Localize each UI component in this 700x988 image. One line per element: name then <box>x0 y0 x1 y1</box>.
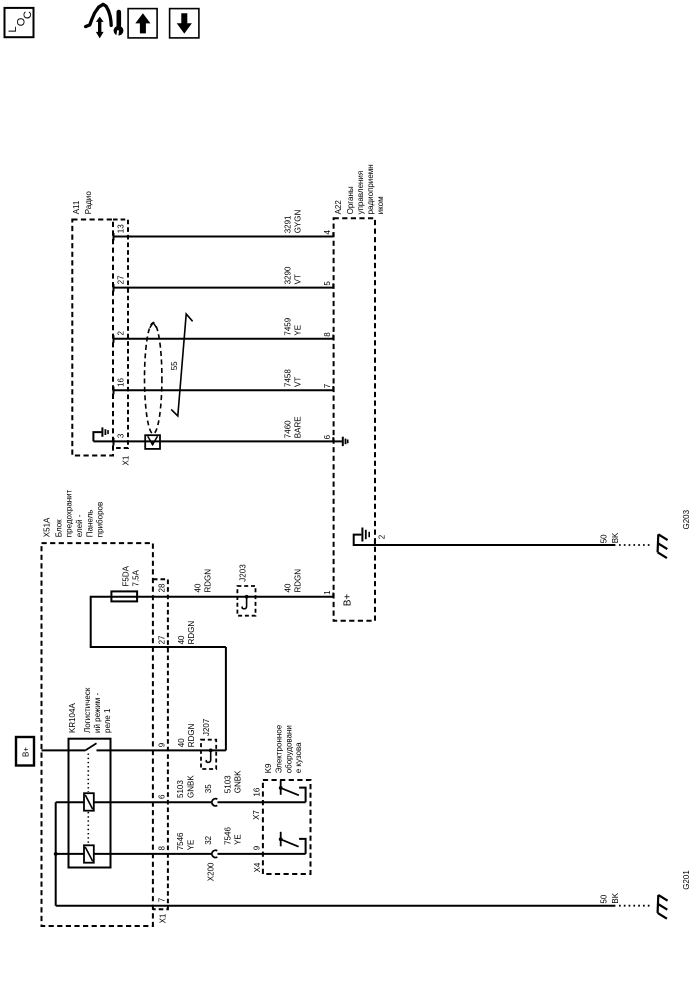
svg-text:9: 9 <box>158 742 167 747</box>
svg-text:RDGN: RDGN <box>293 569 302 593</box>
relay coil 1 <box>84 793 94 811</box>
svg-text:X4: X4 <box>253 862 262 872</box>
svg-text:K9: K9 <box>264 763 273 773</box>
svg-text:B+: B+ <box>21 747 30 757</box>
svg-text:оборудовани: оборудовани <box>285 725 294 773</box>
svg-text:RDGN: RDGN <box>187 621 196 645</box>
svg-text:55: 55 <box>170 361 179 370</box>
svg-text:40: 40 <box>177 738 186 747</box>
svg-text:7460: 7460 <box>283 420 292 438</box>
wire 7546 YE pin8 to X200 <box>56 832 212 854</box>
svg-text:приборов: приборов <box>95 502 104 537</box>
vehicle component-view icon with double arrow and wrench <box>86 4 124 38</box>
svg-text:J207: J207 <box>202 718 211 736</box>
svg-text:16: 16 <box>117 377 126 386</box>
svg-text:YE: YE <box>187 840 196 851</box>
relay coil 2 <box>84 845 94 862</box>
inline connector X200 on wire 7546 <box>204 835 217 881</box>
svg-text:радиоприемн: радиоприемн <box>366 164 375 214</box>
svg-text:2: 2 <box>378 534 387 539</box>
svg-text:е кузова: е кузова <box>294 742 303 773</box>
svg-text:KR104A: KR104A <box>68 703 77 733</box>
svg-text:5: 5 <box>323 281 332 286</box>
shield drain connection box on wire 7460 <box>145 435 160 449</box>
wire 50 BK pin7 to ground G201 <box>56 892 652 905</box>
svg-text:управления: управления <box>356 171 365 215</box>
splice J207 <box>201 718 216 769</box>
svg-text:BK: BK <box>611 532 620 543</box>
svg-text:C: C <box>22 11 34 19</box>
svg-text:иком: иком <box>376 196 385 214</box>
LOC navigation button <box>5 8 35 37</box>
svg-text:A22: A22 <box>334 200 343 215</box>
relay KR104A box <box>68 687 112 867</box>
svg-text:VT: VT <box>293 274 302 284</box>
ground G201 <box>658 870 692 919</box>
component A11 Radio dashed box <box>72 191 113 456</box>
svg-text:3: 3 <box>117 433 126 438</box>
svg-text:16: 16 <box>252 787 261 796</box>
wire from fuse to pin 27 branch <box>91 597 226 647</box>
svg-text:27: 27 <box>158 635 167 644</box>
svg-text:X200: X200 <box>207 862 216 881</box>
svg-text:7: 7 <box>158 897 167 902</box>
svg-text:елей -: елей - <box>75 514 84 537</box>
svg-text:3291: 3291 <box>283 215 292 233</box>
svg-text:GNBK: GNBK <box>233 770 242 793</box>
svg-text:J203: J203 <box>238 564 247 582</box>
svg-text:предохранит: предохранит <box>65 489 74 537</box>
svg-text:7458: 7458 <box>283 369 292 387</box>
component K9 body control module dashed box <box>263 724 311 874</box>
svg-text:X51A: X51A <box>43 517 52 537</box>
svg-text:L: L <box>7 26 19 32</box>
wire 5103 GNBK X200 to K9 pin16 <box>218 770 306 820</box>
svg-text:40: 40 <box>283 583 292 592</box>
svg-text:GNBK: GNBK <box>187 775 196 798</box>
svg-text:40: 40 <box>193 583 202 592</box>
svg-text:Блок: Блок <box>55 519 64 537</box>
wire 40 RDGN pin9 from relay switch to junction <box>97 647 226 750</box>
wire 40 RDGN pin28 to pin1 <box>137 569 333 597</box>
wire 7460 BARE shield drain pin3 to pin6 <box>93 416 333 445</box>
wire 5103 GNBK pin6 to X200 <box>56 775 212 803</box>
svg-text:G203: G203 <box>682 509 691 529</box>
svg-text:50: 50 <box>599 894 608 903</box>
svg-text:YE: YE <box>293 325 302 336</box>
svg-text:Электронное: Электронное <box>275 724 284 773</box>
svg-text:7546: 7546 <box>223 827 232 845</box>
svg-text:4: 4 <box>323 230 332 235</box>
cable annotation slash 55 <box>170 314 193 416</box>
svg-text:X7: X7 <box>252 810 261 820</box>
switch inside K9 at pin 9 <box>279 832 306 854</box>
svg-text:ий режим -: ий режим - <box>93 692 102 733</box>
wire 50 BK to ground G203 <box>375 532 652 545</box>
ground symbol inside A22 at pin 6 <box>333 437 347 446</box>
svg-text:8: 8 <box>323 332 332 337</box>
svg-text:7459: 7459 <box>283 317 292 335</box>
svg-text:A11: A11 <box>72 200 81 214</box>
svg-text:Логистическ: Логистическ <box>83 687 92 733</box>
wire 7458 VT pin16 to pin7 <box>114 369 334 395</box>
svg-text:YE: YE <box>233 834 242 845</box>
wire 7459 YE pin2 to pin8 <box>114 317 334 343</box>
B+ power feed box <box>16 737 34 766</box>
svg-text:Панель: Панель <box>85 510 94 538</box>
svg-text:RDGN: RDGN <box>203 569 212 593</box>
connector X1 of X51A <box>153 579 168 923</box>
relay switch contact <box>85 743 96 750</box>
svg-text:27: 27 <box>117 275 126 284</box>
svg-text:5103: 5103 <box>223 775 232 793</box>
wire 3290 VT pin27 to pin5 <box>114 266 334 292</box>
up-arrow button <box>128 9 157 38</box>
svg-text:G201: G201 <box>682 870 691 890</box>
svg-text:реле 1: реле 1 <box>103 708 112 733</box>
svg-text:7: 7 <box>323 383 332 388</box>
svg-text:X1: X1 <box>159 913 168 923</box>
svg-text:9: 9 <box>253 845 262 850</box>
svg-text:6: 6 <box>323 434 332 439</box>
ground G203 <box>658 509 692 558</box>
svg-text:28: 28 <box>158 583 167 592</box>
ground symbol inside A11 at pin 3 <box>93 427 108 441</box>
connector X1 of A11 <box>113 220 130 466</box>
svg-text:35: 35 <box>204 784 213 793</box>
pin 1 B+ of A22 <box>323 590 354 606</box>
svg-text:B+: B+ <box>342 594 353 607</box>
svg-text:3290: 3290 <box>283 266 292 284</box>
splice J203 <box>237 564 255 616</box>
svg-text:8: 8 <box>158 846 167 851</box>
svg-text:BARE: BARE <box>293 416 302 438</box>
svg-text:1: 1 <box>323 590 332 595</box>
svg-text:2: 2 <box>117 331 126 336</box>
component X51A fuse block dashed box <box>42 489 153 926</box>
wire 3291 GYGN pin13 to pin4 <box>114 210 334 241</box>
svg-text:6: 6 <box>158 794 167 799</box>
shield ellipse around wires <box>145 323 162 434</box>
svg-text:VT: VT <box>293 377 302 387</box>
svg-text:40: 40 <box>177 635 186 644</box>
svg-text:X1: X1 <box>121 455 130 465</box>
svg-text:BK: BK <box>611 892 620 903</box>
svg-text:32: 32 <box>204 835 213 844</box>
ground symbol inside A22 at pin 2 <box>354 528 387 546</box>
svg-text:Радио: Радио <box>84 191 93 215</box>
down-arrow button <box>170 9 199 38</box>
component A22 radio controls dashed box <box>334 164 385 620</box>
svg-text:RDGN: RDGN <box>187 723 196 747</box>
svg-text:F5DA: F5DA <box>121 565 130 586</box>
svg-text:5103: 5103 <box>176 780 185 798</box>
switch inside K9 at pin 16 <box>279 780 306 802</box>
svg-text:13: 13 <box>117 224 126 233</box>
relay coil common trunk <box>54 802 58 905</box>
svg-text:7546: 7546 <box>176 832 185 850</box>
wire B+ feed to relay switch <box>42 749 86 751</box>
svg-text:7.5A: 7.5A <box>131 569 140 586</box>
wire 7546 YE X200 to K9 pin9 <box>218 827 306 873</box>
fuse F5DA 7.5A <box>111 565 140 601</box>
inline connector X200 on wire 5103 <box>204 784 217 806</box>
svg-text:GYGN: GYGN <box>293 210 302 234</box>
svg-text:50: 50 <box>599 534 608 543</box>
relay actuator dotted link <box>87 754 89 845</box>
svg-text:Органы: Органы <box>346 186 355 214</box>
